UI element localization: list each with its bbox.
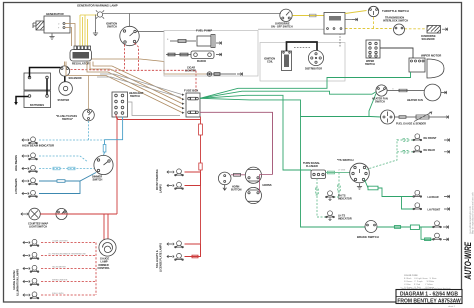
- svg-text:FUEL GAUGE & SENDER: FUEL GAUGE & SENDER: [396, 123, 426, 126]
- wiper motor: [409, 58, 444, 78]
- svg-text:RH REAR: RH REAR: [424, 149, 436, 152]
- flash-to-pass switch: [83, 109, 95, 121]
- svg-text:LAMPS: LAMPS: [160, 184, 163, 193]
- svg-text:www.advanceautowire.com: www.advanceautowire.com: [469, 206, 472, 234]
- starter: [59, 82, 73, 96]
- RH TS indicator: [326, 191, 335, 198]
- RH REAR lamp: [413, 146, 422, 153]
- svg-text:LT GRN: LT GRN: [338, 170, 346, 172]
- wire: maroon fusebox to horns: [200, 112, 273, 174]
- svg-text:COLOR CODE: COLOR CODE: [404, 275, 418, 277]
- wire: green F fusebox to flasher: [200, 95, 311, 170]
- wire: yellow to relay (fused): [292, 14, 324, 17]
- svg-text:INDICATOR: INDICATOR: [338, 198, 352, 201]
- horn 1: [245, 167, 261, 183]
- svg-text:ON - OFF SWITCH: ON - OFF SWITCH: [271, 26, 293, 29]
- svg-text:HEATER FAN: HEATER FAN: [407, 99, 423, 102]
- cigar lighter: [206, 72, 236, 76]
- low beam lamp 1: [29, 178, 38, 185]
- accessory enclosure (grey): [164, 31, 258, 77]
- heater fan switch: [376, 85, 387, 96]
- svg-text:BRAKE SWITCH: BRAKE SWITCH: [357, 235, 379, 239]
- svg-text:FROM BENTLEY A8753AW: FROM BENTLEY A8753AW: [397, 298, 461, 304]
- svg-text:SWITCH*: SWITCH*: [62, 118, 73, 121]
- wire: relay yellow diag to throttle: [345, 11, 367, 14]
- heater fan: [424, 84, 441, 101]
- wire: red feeds to gauge dimmer: [104, 214, 108, 240]
- brake lamp upper: [433, 221, 442, 228]
- wire: top run lamp to overdrive switch (dark): [103, 13, 281, 15]
- wire: flash-to-pass stub up: [88, 76, 90, 110]
- wire: low beams blue solid: [39, 173, 96, 194]
- svg-text:HORNS: HORNS: [263, 184, 272, 187]
- RH FRONT lamp: [413, 134, 422, 141]
- wire: throttle yellow dashed down: [373, 17, 375, 28]
- wire: tail lamps red: [185, 244, 201, 258]
- svg-text:BATTERIES: BATTERIES: [30, 104, 44, 107]
- wire: yellow bundle regulator to warning lamp: [80, 15, 97, 46]
- regulator: [70, 46, 92, 61]
- title block: [396, 290, 462, 308]
- wire: ignition red dashed down: [71, 43, 197, 93]
- brake lamp lower: [433, 233, 442, 240]
- fuse box: [182, 93, 200, 117]
- svg-text:GENERATOR WARNING LAMP: GENERATOR WARNING LAMP: [77, 4, 118, 8]
- wire: lt grn flasher down to indicators: [316, 173, 341, 218]
- gauge lamp dimmer control (rheostat): [99, 239, 116, 256]
- front parking lamp 1: [175, 169, 184, 176]
- coil-distributor HT lead (thick): [287, 42, 318, 51]
- wire: solenoid brown up: [64, 62, 66, 66]
- wire: white run to relay: [258, 28, 324, 30]
- wire: red headlight switch to fusebox: [116, 115, 201, 215]
- wire: heater switch diagonal: [369, 94, 376, 118]
- wire: green TS to LH lamps: [365, 180, 414, 210]
- svg-text:DISTRIBUTOR: DISTRIBUTOR: [305, 68, 322, 71]
- wire: parking lamps red: [185, 172, 201, 186]
- brown harness sweep to fuse box: [66, 59, 206, 113]
- svg-text:LH REAR: LH REAR: [428, 196, 439, 199]
- wire: flasher to TS switch (lt grn): [326, 171, 351, 174]
- svg-text:TACHOMETER: TACHOMETER: [52, 266, 66, 269]
- wire: flash-to-pass blue dashed down: [88, 121, 90, 140]
- svg-text:U Blue R Red Y: U Blue R Red Y Yellow: [404, 284, 433, 286]
- dimmer switch: [94, 155, 113, 174]
- wire: brake to brake lamps: [377, 225, 433, 241]
- svg-text:HIGH BEAM INDICATOR: HIGH BEAM INDICATOR: [22, 144, 54, 148]
- dash lamp 1: [30, 239, 39, 246]
- fuel gauge: [381, 110, 395, 124]
- high beam lamp 1: [29, 153, 38, 160]
- overdrive solenoid: [427, 26, 441, 34]
- svg-text:LICENSE PLATE LAMPS: LICENSE PLATE LAMPS: [160, 243, 163, 272]
- wire: ignition to accessory box (black): [137, 31, 165, 33]
- svg-text:SOLENOID: SOLENOID: [422, 38, 435, 41]
- battery cables thick black: [16, 68, 65, 103]
- svg-text:INTERLOCK SWITCH: INTERLOCK SWITCH: [383, 20, 408, 23]
- batteries: [24, 73, 51, 108]
- svg-text:SWITCH: SWITCH: [375, 101, 385, 104]
- svg-text:LH FRONT: LH FRONT: [428, 208, 441, 211]
- svg-text:CIGAR LIGHTER: CIGAR LIGHTER: [52, 240, 68, 243]
- radio: [166, 51, 214, 59]
- wire: headlight switch grey stub: [128, 102, 181, 116]
- wire: blue solid headlight switch to dimmer: [103, 117, 122, 156]
- svg-text:INDICATOR: INDICATOR: [338, 218, 352, 221]
- courtesy light: [29, 208, 41, 220]
- svg-text:LIGHTER: LIGHTER: [185, 70, 196, 73]
- wire: lt-green dashed to RH lamps: [366, 139, 413, 170]
- resistance wire dashed: [294, 35, 340, 48]
- wire: fuel sender: [395, 112, 444, 122]
- wire: courtesy red: [40, 213, 117, 215]
- tail lamp 2: [175, 253, 184, 260]
- svg-text:HIGH BEAMS: HIGH BEAMS: [15, 155, 18, 171]
- svg-text:ILLUMINATION LAMPS: ILLUMINATION LAMPS: [17, 268, 20, 296]
- wire: green H fusebox to heater fan switch: [200, 91, 377, 98]
- wire: yellow dashed lower run: [345, 28, 427, 30]
- dash lamp 2: [30, 252, 39, 259]
- dash lamp rows (red dashed): [41, 243, 96, 296]
- svg-text:B Black LG Light Green: B Black LG Light Green S Slate: [404, 277, 437, 280]
- svg-text:BUTTON: BUTTON: [231, 189, 242, 192]
- svg-text:RH FRONT: RH FRONT: [424, 137, 437, 140]
- horn button: [218, 172, 231, 190]
- svg-text:SPEEDOMETER: SPEEDOMETER: [52, 280, 68, 282]
- svg-text:FUSE BOX: FUSE BOX: [184, 89, 198, 93]
- tail lamp 1: [175, 241, 184, 248]
- ts switch ground: [357, 184, 362, 190]
- ignition switch: [120, 26, 139, 45]
- high beam lamp 2: [29, 165, 38, 172]
- svg-text:FLASHER: FLASHER: [306, 165, 318, 168]
- svg-text:SWITCH: SWITCH: [365, 63, 375, 66]
- color code legend: [400, 275, 450, 290]
- wire: white pair to fusebox: [97, 74, 182, 98]
- wire: generator D/F to regulator (brown): [65, 24, 75, 47]
- wire: hbi blue dashed: [39, 139, 105, 141]
- wire: lamp dark stubs: [96, 14, 130, 32]
- engine enclosure (grey): [260, 43, 345, 82]
- throttle switch: [368, 6, 378, 16]
- wire: red main feed down (tail/parking) with fuses: [200, 117, 202, 257]
- LH FRONT lamp: [413, 203, 422, 210]
- svg-text:SWITCH: SWITCH: [107, 26, 117, 29]
- LH REAR lamp: [413, 190, 422, 197]
- courtesy switch: [56, 208, 67, 219]
- wire: wiper switch to motor (black): [380, 48, 413, 58]
- TS switch: [350, 163, 370, 183]
- dash lamp 4: [30, 278, 39, 285]
- transmission interlock switch: [394, 24, 405, 35]
- turn signal flasher: [311, 170, 326, 179]
- svg-text:OIL PRESSURE/WATER TEMPERATURE: OIL PRESSURE/WATER TEMPERATURE: [48, 253, 86, 256]
- ground near lamp: [93, 30, 98, 36]
- horn 2: [245, 187, 261, 203]
- svg-text:THROTTLE SWITCH: THROTTLE SWITCH: [382, 9, 409, 13]
- svg-text:*TS SWITCH: *TS SWITCH: [337, 158, 353, 162]
- svg-text:AUTO-WIRE: AUTO-WIRE: [463, 241, 473, 280]
- front parking lamp 2: [175, 182, 184, 189]
- generator G1: [33, 16, 70, 33]
- wire: heater switch to fan: [387, 89, 424, 92]
- generator warning lamp: [96, 10, 104, 18]
- svg-text:FUEL LEVEL: FUEL LEVEL: [52, 293, 65, 295]
- wire: green B fusebox to brake switch + fuel gauge branch: [200, 98, 381, 227]
- svg-text:SWITCH: SWITCH: [130, 95, 140, 98]
- svg-text:CONTROL: CONTROL: [98, 267, 111, 270]
- LH TS indicator: [326, 211, 335, 218]
- svg-text:WIPER MOTOR: WIPER MOTOR: [421, 54, 441, 58]
- svg-text:STARTER: STARTER: [58, 99, 70, 102]
- overdrive on-off switch: [280, 9, 292, 21]
- svg-text:SWITCH: SWITCH: [93, 179, 103, 182]
- ignition coil: [282, 51, 292, 71]
- wire: high beams blue dashed to dimmer: [39, 156, 94, 169]
- high beam indicator: [29, 137, 38, 144]
- wiper switch: [366, 40, 380, 58]
- dash lamp 5: [30, 292, 39, 299]
- svg-text:COIL: COIL: [267, 61, 273, 64]
- low beam lamp 2: [29, 190, 38, 197]
- svg-text:N Brown P Purple W: N Brown P Purple W White: [404, 280, 435, 283]
- wire: purple horn chain: [260, 175, 273, 193]
- svg-text:LIGHT/SWITCH: LIGHT/SWITCH: [29, 226, 47, 229]
- svg-text:LOW BEAMS: LOW BEAMS: [15, 178, 18, 194]
- wire: relay black out: [345, 19, 352, 21]
- svg-text:RADIO: RADIO: [197, 59, 207, 63]
- dash lamp 3: [30, 265, 39, 272]
- svg-text:GENERATOR: GENERATOR: [46, 12, 64, 16]
- brake switch: [365, 221, 377, 233]
- wire: horn button to horns (fused): [231, 173, 246, 176]
- fuel pump: [170, 35, 215, 48]
- distributor: [308, 50, 323, 65]
- overdrive relay box: [324, 13, 345, 35]
- wire: green W fusebox to wiper motor: [200, 72, 411, 98]
- headlight switch: [112, 92, 128, 117]
- solenoid: [60, 66, 70, 76]
- svg-text:FUEL PUMP: FUEL PUMP: [196, 29, 212, 33]
- svg-text:SOLENOID: SOLENOID: [69, 77, 82, 80]
- svg-text:DIAGRAM 1 - 62/64 MGB: DIAGRAM 1 - 62/64 MGB: [400, 291, 458, 297]
- generator ground: [49, 34, 54, 40]
